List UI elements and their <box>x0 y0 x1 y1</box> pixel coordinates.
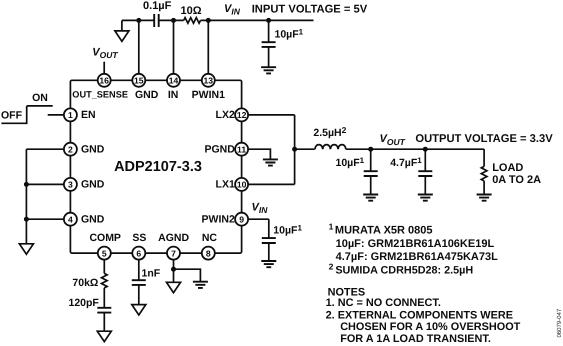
ground (analog triangle) ss <box>132 305 146 315</box>
svg-text:1: 1 <box>68 110 73 120</box>
node junction top rail at pin14 <box>171 18 176 23</box>
svg-text:15: 15 <box>134 76 144 86</box>
ground (earth) agnd <box>193 282 208 288</box>
svg-text:0.1µF: 0.1µF <box>143 0 172 12</box>
wire: LX node to inductor <box>295 148 315 150</box>
svg-text:GND: GND <box>81 179 105 191</box>
wire: output cap1 to ground <box>370 176 372 195</box>
ground (analog triangle) left bus <box>19 244 33 254</box>
ground (earth) output cap2 <box>418 195 433 201</box>
wire: rail from resistor to right end <box>201 19 314 21</box>
capacitor C_in 10uF plates <box>262 42 276 47</box>
capacitor C_ss 1nF plates <box>132 280 146 285</box>
svg-text:EN: EN <box>81 109 96 121</box>
svg-text:12: 12 <box>237 110 247 120</box>
svg-text:8: 8 <box>206 248 211 258</box>
wire: AGND branch to earth ground <box>174 269 201 282</box>
capacitor C_out2 4.7uF plates <box>418 171 432 176</box>
svg-text:ON: ON <box>32 92 48 104</box>
ground (analog triangle) at top-left <box>115 31 129 41</box>
node junction at 4.7uF <box>423 147 428 152</box>
svg-text:INPUT VOLTAGE = 5V: INPUT VOLTAGE = 5V <box>252 4 368 16</box>
wire: pin 9 PWIN2 to VIN stub <box>248 218 269 220</box>
svg-text:6: 6 <box>136 248 141 258</box>
svg-text:10: 10 <box>237 180 247 190</box>
ground (earth) below input cap <box>261 67 276 73</box>
wire: switch to pin 1 EN <box>48 114 64 116</box>
ground (earth) output cap1 <box>363 195 378 201</box>
svg-text:9: 9 <box>239 214 244 224</box>
pin 1 EN <box>64 108 77 121</box>
svg-text:10µF: GRM21BR61A106KE19L: 10µF: GRM21BR61A106KE19L <box>336 238 495 250</box>
svg-text:COMP: COMP <box>89 232 121 244</box>
pin 3 GND <box>64 178 77 191</box>
resistor R_load zigzag <box>481 166 487 180</box>
wire: left ground bus vertical <box>25 149 27 244</box>
svg-text:13: 13 <box>204 76 214 86</box>
wire: input cap to ground <box>268 47 270 67</box>
svg-text:LOAD: LOAD <box>492 162 523 174</box>
wire: pin 3 GND to left bus <box>26 183 64 185</box>
svg-text:OUTPUT VOLTAGE = 3.3V: OUTPUT VOLTAGE = 3.3V <box>415 133 553 145</box>
node junction VOUT at 10uF <box>368 147 373 152</box>
wire: VOUT stub above pin 16 <box>103 62 105 74</box>
wire: pin 4 GND to left bus <box>26 218 64 220</box>
wire: rail down to pin 15 <box>138 20 140 74</box>
svg-text:SS: SS <box>132 232 146 244</box>
pin 14 IN <box>167 74 180 87</box>
wire: load to ground <box>483 181 485 195</box>
wire: pin 2 GND to left bus <box>26 148 64 150</box>
svg-text:LX2: LX2 <box>216 109 235 121</box>
wire: pin 7 AGND down <box>173 259 175 282</box>
svg-text:FOR A 1A LOAD TRANSIENT.: FOR A 1A LOAD TRANSIENT. <box>340 333 491 345</box>
node junction AGND <box>171 267 176 272</box>
svg-text:GND: GND <box>81 144 105 156</box>
wire: stub down to pwin2 cap <box>268 219 270 238</box>
wire: pwin2 cap to ground <box>268 243 270 261</box>
pin 11 PGND <box>235 143 248 156</box>
IC U1 ADP2107-3.3 body outline <box>70 80 241 253</box>
wire: ss cap to ground <box>138 285 140 305</box>
wire: VOUT node down to 10uF output cap <box>370 149 372 171</box>
node junction bus/pin3 <box>24 182 29 187</box>
wire: rail down to pin 14 <box>173 20 175 74</box>
wire: output rail corner down to load <box>483 149 485 166</box>
svg-text:4.7µF: GRM21BR61A475KA73L: 4.7µF: GRM21BR61A475KA73L <box>336 251 499 263</box>
ground (earth) pwin2 <box>261 261 276 267</box>
pin 7 AGND <box>167 247 180 260</box>
ground (analog triangle) comp <box>97 331 111 341</box>
wire: resistor to comp cap <box>103 288 105 308</box>
svg-text:1nF: 1nF <box>142 268 161 280</box>
wire: stem from VIN node down to input cap <box>268 20 270 42</box>
resistor R_comp 70k zigzag <box>102 273 108 288</box>
wire: LX bus vertical <box>294 115 296 184</box>
wire: pin 10 LX1 to LX bus <box>248 183 295 185</box>
svg-text:OFF: OFF <box>1 109 23 121</box>
svg-text:GND: GND <box>135 89 159 101</box>
pin 8 NC <box>202 247 215 260</box>
svg-text:CHOSEN FOR A 10% OVERSHOOT: CHOSEN FOR A 10% OVERSHOOT <box>340 321 520 333</box>
wire: node down to 4.7uF output cap <box>424 149 426 171</box>
wire: stem from rail left end down to ground <box>121 20 123 31</box>
svg-text:PWIN1: PWIN1 <box>192 89 225 101</box>
svg-text:16: 16 <box>99 76 109 86</box>
ground (earth) load <box>477 195 492 201</box>
wire: top rail left segment to 0.1uF cap <box>122 19 154 21</box>
wire: output cap2 to ground <box>424 176 426 195</box>
svg-text:2SUMIDA CDRH5D28: 2.5µH: 2SUMIDA CDRH5D28: 2.5µH <box>329 261 474 276</box>
wire: comp cap to ground <box>103 313 105 332</box>
svg-text:ADP2107-3.3: ADP2107-3.3 <box>114 159 202 175</box>
pin 15 GND <box>132 74 145 87</box>
ground (earth) pgnd <box>263 159 278 165</box>
svg-text:70kΩ: 70kΩ <box>72 277 98 289</box>
wire: pin 11 PGND to ground <box>248 149 271 159</box>
capacitor C_pwin2 10uF plates <box>262 238 276 243</box>
svg-text:GND: GND <box>81 214 105 226</box>
switch S1 pole and OFF contact <box>1 106 26 123</box>
pin 2 GND <box>64 143 77 156</box>
pin 10 LX1 <box>235 178 248 191</box>
svg-text:IN: IN <box>168 89 179 101</box>
wire: pin 6 SS down to soft-start cap <box>138 259 140 280</box>
svg-text:1MURATA X5R 0805: 1MURATA X5R 0805 <box>329 221 433 236</box>
pin 12 LX2 <box>235 108 248 121</box>
svg-text:2. EXTERNAL COMPONENTS WERE: 2. EXTERNAL COMPONENTS WERE <box>326 310 513 322</box>
switch S1 ON position contact <box>27 105 53 107</box>
node junction top rail at pin15 <box>136 18 141 23</box>
svg-text:5: 5 <box>102 248 107 258</box>
resistor R_in 10ohm zigzag <box>184 18 201 24</box>
capacitor C_comp 120pF plates <box>97 308 111 313</box>
svg-text:PGND: PGND <box>204 144 235 156</box>
node junction top rail at pin13 <box>206 18 211 23</box>
svg-text:PWIN2: PWIN2 <box>202 214 235 226</box>
capacitor C_bst 0.1uF plates <box>154 14 159 27</box>
svg-text:LX1: LX1 <box>216 179 235 191</box>
svg-text:2: 2 <box>68 144 73 154</box>
svg-text:4: 4 <box>68 214 73 224</box>
pin 4 GND <box>64 213 77 226</box>
svg-text:OUT_SENSE: OUT_SENSE <box>72 90 128 100</box>
pin 9 PWIN2 <box>235 213 248 226</box>
wire: rail down to pin 13 <box>207 20 209 74</box>
pin 13 PWIN1 <box>202 74 215 87</box>
wire: pin 12 LX2 to LX bus <box>248 114 295 116</box>
svg-text:NC: NC <box>202 232 218 244</box>
svg-text:AGND: AGND <box>158 232 189 244</box>
wire: pin 5 COMP down to compensation network <box>103 259 105 273</box>
svg-text:14: 14 <box>169 76 179 86</box>
svg-text:3: 3 <box>68 180 73 190</box>
capacitor C_out1 10uF plates <box>364 171 378 176</box>
svg-text:11: 11 <box>237 144 246 154</box>
ground (analog triangle) agnd <box>167 282 181 292</box>
svg-text:06079-047: 06079-047 <box>556 308 563 337</box>
pin 6 SS <box>132 247 145 260</box>
svg-text:0A TO 2A: 0A TO 2A <box>492 174 541 186</box>
pin 16 OUT_SENSE <box>98 74 111 87</box>
pin 5 COMP <box>98 247 111 260</box>
wire: rail between cap and resistor <box>159 19 184 21</box>
svg-text:7: 7 <box>171 248 176 258</box>
node VIN junction at input cap <box>266 18 271 23</box>
wire: inductor to output rail <box>346 148 484 150</box>
node junction bus/pin4 <box>24 217 29 222</box>
inductor L1 2.5uH <box>315 145 346 150</box>
svg-text:10Ω: 10Ω <box>180 5 201 17</box>
svg-text:120pF: 120pF <box>69 297 100 309</box>
node junction LX <box>292 147 297 152</box>
svg-text:1. NC = NO CONNECT.: 1. NC = NO CONNECT. <box>326 297 441 309</box>
